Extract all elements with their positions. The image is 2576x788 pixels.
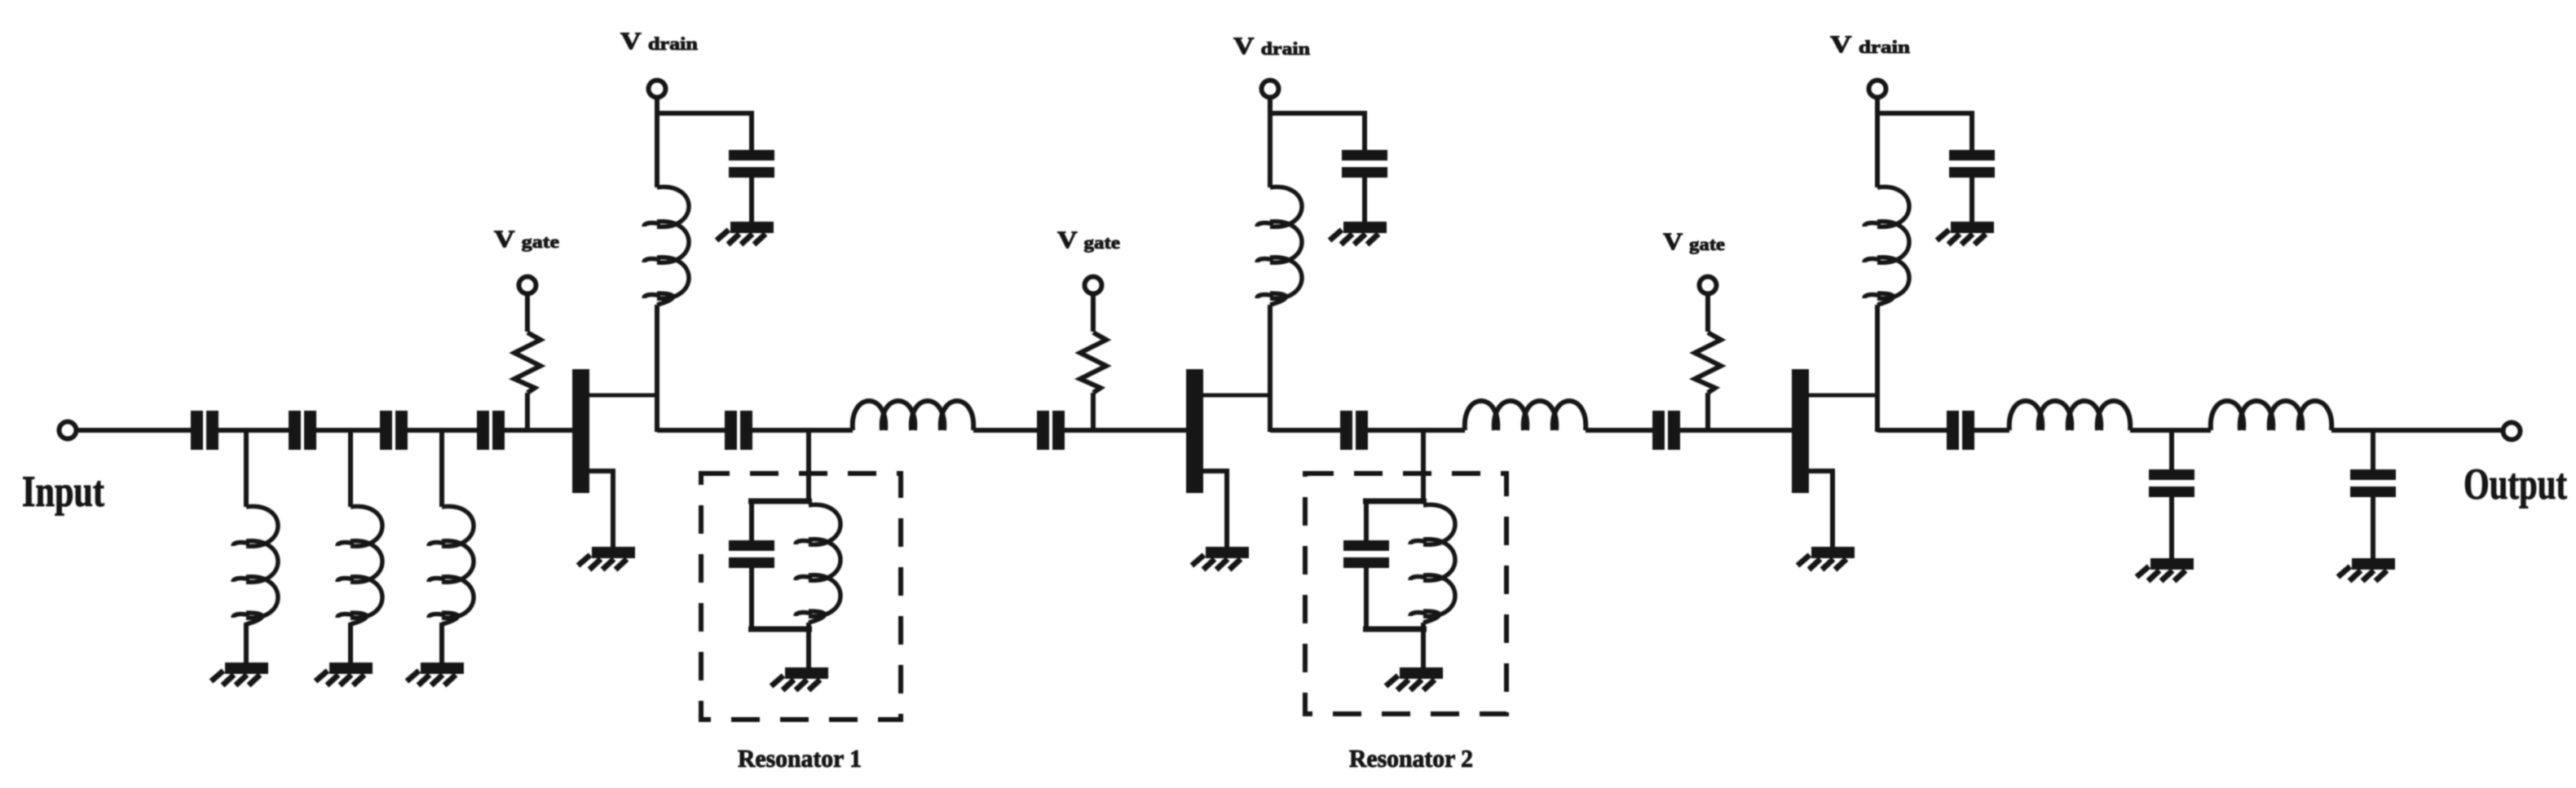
svg-text:V gate: V gate (494, 226, 559, 253)
svg-text:V drain: V drain (620, 28, 698, 55)
svg-text:Resonator 1: Resonator 1 (738, 744, 862, 773)
svg-text:V drain: V drain (1830, 31, 1910, 58)
svg-text:V gate: V gate (1057, 227, 1120, 253)
svg-text:V gate: V gate (1663, 228, 1725, 255)
svg-text:V drain: V drain (1233, 33, 1310, 59)
svg-text:Input: Input (22, 467, 104, 516)
svg-text:Output: Output (2464, 460, 2567, 508)
svg-text:Resonator 2: Resonator 2 (1349, 744, 1473, 773)
